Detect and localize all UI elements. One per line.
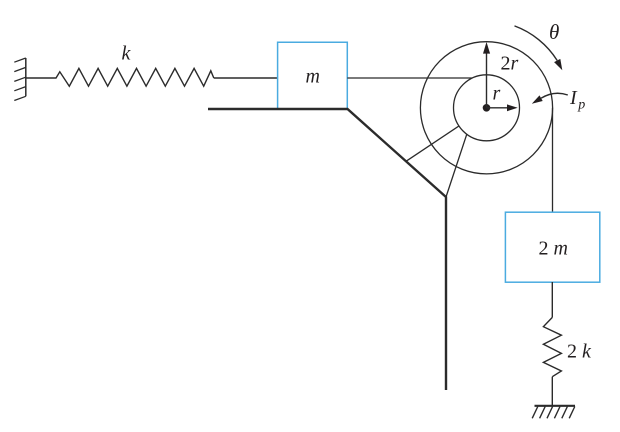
spring 2k [543, 317, 561, 376]
svg-text:I: I [569, 87, 578, 109]
radius arrow r [487, 107, 508, 109]
rope from pulley to mass 2m [552, 108, 554, 212]
mass m block [278, 42, 348, 109]
Ip rotation arrow [541, 93, 568, 98]
svg-text:θ: θ [549, 20, 559, 44]
svg-text:k: k [122, 43, 132, 65]
pulley strut lower [446, 134, 467, 197]
theta rotation arrow [515, 26, 558, 61]
rope from mass m to inner pulley [347, 77, 472, 79]
svg-text:p: p [577, 97, 585, 112]
radius arrow 2r [486, 53, 488, 108]
spring k [26, 68, 214, 86]
svg-text:2 m: 2 m [539, 237, 568, 259]
pulley strut upper [406, 126, 459, 161]
ground (fixed support) [532, 406, 575, 419]
pulley hub dot [483, 104, 491, 112]
wall (left fixed support) [14, 58, 25, 101]
support bracket (L-shaped frame) [208, 109, 446, 390]
svg-text:2r: 2r [501, 53, 519, 75]
svg-text:m: m [306, 66, 320, 88]
svg-text:r: r [493, 83, 501, 105]
mass 2m block [505, 212, 599, 282]
pulley outer circle [420, 42, 552, 174]
rod from spring 2k to ground [551, 377, 553, 406]
wire from spring to mass m [214, 77, 278, 79]
rod from 2m to spring 2k [551, 282, 553, 317]
svg-text:2 k: 2 k [567, 341, 592, 363]
pulley inner circle [454, 75, 520, 141]
